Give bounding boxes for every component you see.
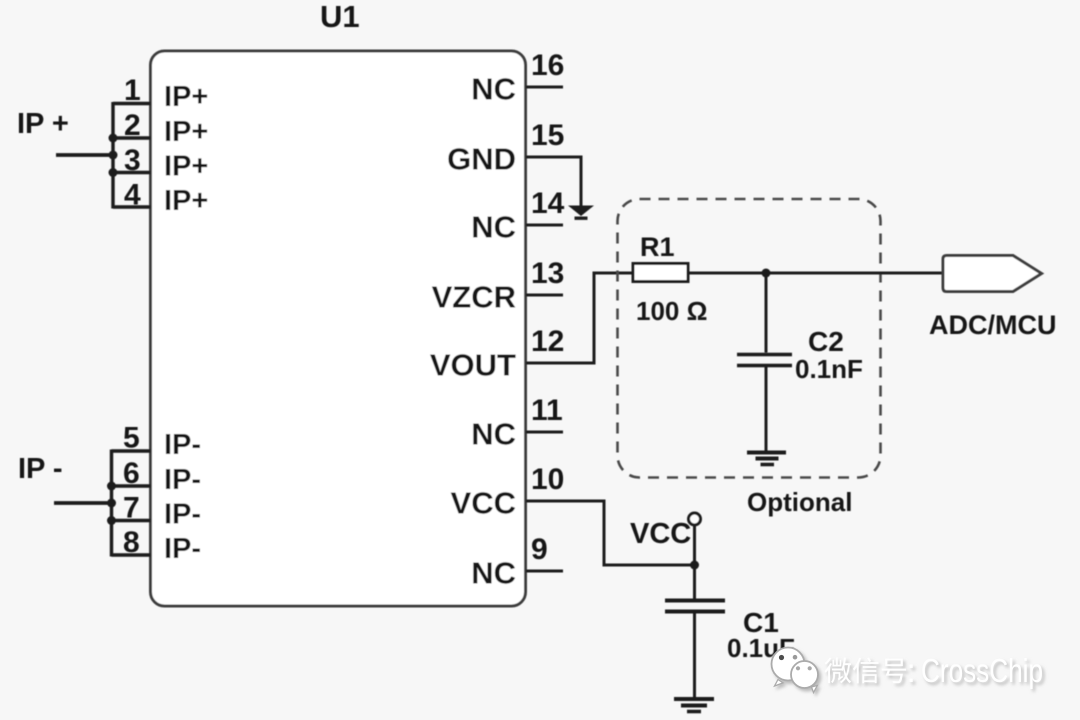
svg-text:2: 2 — [124, 109, 141, 142]
svg-text:0.1nF: 0.1nF — [795, 354, 863, 384]
svg-text:IP+: IP+ — [164, 81, 208, 113]
VCC terminal circle — [689, 513, 701, 525]
svg-text:IP -: IP - — [18, 453, 63, 485]
junction dot node VCC — [690, 561, 699, 570]
watermark char 微 — [824, 657, 851, 683]
pin 10 wire VCC — [526, 501, 695, 565]
pin 6 stub — [112, 484, 151, 487]
svg-text:13: 13 — [531, 257, 564, 290]
pin 3 stub — [113, 171, 151, 174]
svg-text:VOUT: VOUT — [430, 348, 516, 383]
svg-text:IP+: IP+ — [164, 185, 208, 217]
IC U1 body — [151, 51, 526, 606]
wire VCC terminal to node — [693, 525, 696, 599]
svg-text:IP-: IP- — [164, 499, 201, 531]
ground (C1) — [674, 699, 714, 712]
svg-text:5: 5 — [123, 422, 140, 455]
svg-text:10: 10 — [531, 463, 564, 496]
pin 13 stub — [526, 294, 563, 297]
svg-text:14: 14 — [531, 187, 565, 220]
pin 8 stub — [112, 553, 151, 556]
svg-text:NC: NC — [471, 556, 516, 591]
svg-text::: : — [907, 652, 916, 689]
svg-text:U1: U1 — [320, 0, 360, 34]
pin 12 wire VOUT to R1 — [526, 273, 633, 363]
svg-text:NC: NC — [471, 417, 516, 452]
svg-text:IP +: IP + — [17, 108, 69, 140]
wire C2 top — [765, 273, 768, 353]
pin 2 stub — [113, 136, 151, 139]
optional dashed box — [618, 199, 881, 478]
svg-text:3: 3 — [124, 144, 141, 177]
ground (pin 15) — [568, 206, 594, 220]
pin 7 stub — [112, 519, 151, 522]
svg-text:12: 12 — [531, 325, 564, 358]
watermark char 信 — [853, 657, 879, 683]
resistor R1 — [633, 264, 688, 282]
svg-text:4: 4 — [124, 179, 141, 212]
junction dot — [109, 151, 118, 160]
ground (C2) — [747, 453, 786, 465]
junction dot — [109, 134, 118, 143]
svg-text:1: 1 — [124, 74, 141, 107]
wire IP+ input — [56, 153, 113, 157]
junction dot — [107, 482, 116, 491]
pin 1 stub — [113, 102, 151, 105]
capacitor C1 — [665, 601, 725, 612]
svg-text:6: 6 — [123, 457, 140, 490]
wire C1 bottom — [693, 613, 696, 697]
svg-text:IP-: IP- — [164, 533, 201, 565]
wire C2 bottom — [765, 367, 768, 451]
svg-text:IP-: IP- — [164, 464, 201, 496]
svg-text:CrossChip: CrossChip — [921, 652, 1043, 689]
wire R1 to ADC/MCU — [688, 272, 943, 275]
svg-text:15: 15 — [531, 119, 564, 152]
svg-text:R1: R1 — [640, 232, 675, 262]
pin 11 stub — [526, 431, 563, 434]
pin 9 stub — [526, 570, 563, 573]
svg-text:GND: GND — [447, 142, 516, 177]
junction dot node VOUT/C2 — [762, 269, 771, 278]
svg-text:100 Ω: 100 Ω — [636, 296, 707, 326]
junction dot — [107, 516, 116, 525]
svg-text:7: 7 — [123, 492, 140, 525]
pin 4 stub — [113, 205, 151, 208]
IP- bus bar — [110, 450, 113, 557]
IP+ bus bar — [111, 102, 114, 209]
svg-text:16: 16 — [531, 49, 564, 82]
svg-text:8: 8 — [123, 526, 140, 559]
pin 15 wire to ground — [526, 157, 581, 206]
svg-text:C2: C2 — [808, 326, 844, 357]
capacitor C2 — [737, 355, 792, 366]
svg-text:VCC: VCC — [451, 486, 516, 521]
pin 5 stub — [112, 449, 151, 452]
svg-text:IP+: IP+ — [164, 116, 208, 148]
pin 16 stub — [526, 86, 563, 89]
svg-text:Optional: Optional — [747, 487, 852, 517]
junction dot — [109, 168, 118, 177]
watermark char 号 — [882, 659, 906, 684]
svg-text:9: 9 — [531, 533, 548, 566]
svg-text:VZCR: VZCR — [432, 280, 516, 315]
svg-text:ADC/MCU: ADC/MCU — [929, 310, 1057, 340]
svg-text:IP-: IP- — [164, 429, 201, 461]
pin 14 stub — [526, 224, 563, 227]
svg-text:NC: NC — [471, 72, 516, 107]
svg-text:11: 11 — [531, 394, 563, 427]
junction dot — [107, 499, 116, 508]
svg-text:IP+: IP+ — [164, 151, 208, 183]
watermark group — [772, 648, 1044, 693]
svg-text:VCC: VCC — [630, 518, 691, 550]
ADC/MCU connector flag — [943, 256, 1042, 292]
watermark WeChat logo — [772, 648, 819, 693]
svg-text:NC: NC — [471, 210, 516, 245]
wire IP- input — [54, 501, 112, 505]
